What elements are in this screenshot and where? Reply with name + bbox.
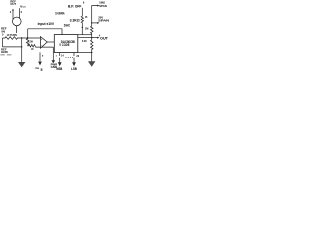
svg-text:SPAN: SPAN	[99, 4, 107, 8]
junction C	[27, 37, 28, 38]
svg-text:Input ±10V: Input ±10V	[38, 22, 55, 26]
pin MSB stub	[59, 53, 61, 57]
resistor R2	[3, 37, 41, 40]
node PWR GND label	[51, 62, 58, 68]
svg-text:GND: GND	[1, 50, 9, 54]
svg-text:OUT: OUT	[100, 37, 109, 41]
svg-text:3.3KΩ: 3.3KΩ	[70, 19, 80, 23]
svg-text:1.5K: 1.5K	[28, 39, 34, 43]
ground arrow left	[18, 62, 25, 67]
svg-text:1M: 1M	[85, 26, 89, 30]
IC U2 DAC80	[54, 35, 78, 53]
op-amp U1	[40, 37, 47, 49]
pin LSB stub	[73, 53, 75, 57]
potentiometer R1 10 TURN	[12, 17, 21, 26]
wire out connect	[78, 37, 92, 39]
resistor R7 6.3K	[91, 38, 94, 62]
wire top connect	[78, 34, 92, 36]
ground arrow right	[88, 61, 95, 67]
arrow pwr gnd	[52, 60, 56, 63]
svg-text:OUT: OUT	[10, 2, 16, 6]
svg-text:1K: 1K	[31, 47, 34, 51]
node REF OUT arrowhead	[12, 9, 14, 11]
junction D	[82, 27, 83, 28]
label dashes	[0, 53, 11, 56]
resistor R4 1K	[28, 45, 54, 48]
svg-text:10-0846A: 10-0846A	[55, 11, 65, 15]
wire riser	[27, 29, 29, 38]
arrow span	[97, 22, 99, 24]
junction E	[91, 37, 92, 38]
arrow gain	[97, 5, 99, 7]
junction A	[21, 37, 22, 38]
wire left drop	[2, 38, 4, 47]
arrow LSB	[72, 62, 76, 66]
svg-text:MSB: MSB	[56, 67, 62, 71]
wire MSB arrow shaft	[59, 58, 61, 63]
resistor R3 1.5K	[26, 38, 29, 46]
svg-text:5: 5	[41, 68, 43, 71]
arrow MSB	[58, 62, 62, 66]
node REF GND label	[1, 47, 9, 54]
label dots	[66, 56, 74, 59]
arrow out	[97, 37, 99, 39]
arrowhead into DAC	[55, 41, 57, 43]
resistor R5 3.3K	[81, 16, 83, 23]
arrow supply mid	[38, 62, 42, 66]
wire dac bottom to chain	[78, 52, 92, 54]
wire pot wiper	[16, 26, 18, 33]
svg-text:LSB: LSB	[71, 67, 77, 71]
svg-text:6.3K: 6.3K	[82, 39, 87, 43]
wire supply drop left	[21, 38, 23, 62]
wire input rail	[28, 29, 62, 35]
wire span branch	[92, 22, 98, 24]
svg-text:B.P. OFF: B.P. OFF	[68, 5, 81, 9]
wire REF OUT lead	[12, 10, 14, 20]
wire out branch	[92, 37, 98, 39]
svg-text:-: -	[41, 44, 42, 47]
wire bp off drop	[81, 8, 83, 16]
wire gain branch	[92, 6, 98, 23]
wire bp off lower	[81, 23, 83, 35]
svg-text:V CODE: V CODE	[59, 43, 70, 47]
wire op-amp output	[47, 41, 56, 43]
wire LSB arrow shaft	[73, 58, 75, 63]
svg-text:10 TURN: 10 TURN	[7, 33, 17, 37]
node REF OUT label	[10, 0, 16, 6]
svg-text:DAC: DAC	[64, 24, 71, 28]
junction G	[91, 52, 92, 53]
wire pwr gnd drop	[52, 47, 54, 61]
resistor R6	[91, 23, 94, 38]
wire VCC lead	[19, 8, 21, 18]
junction B	[21, 46, 22, 47]
svg-text:SPAN: SPAN	[98, 19, 110, 23]
junction F	[91, 22, 92, 23]
wire REF GND rail	[3, 46, 22, 48]
node REF IN label	[1, 27, 7, 34]
supply drop mid	[39, 52, 41, 62]
